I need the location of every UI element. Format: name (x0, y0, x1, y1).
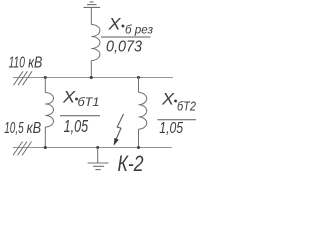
reactor coil Xб.рез (91, 25, 100, 61)
wire: reactor to 110kV bus (90, 61, 92, 78)
svg-text:110: 110 (9, 54, 26, 71)
node: 10.5kV/ground junction (96, 146, 99, 149)
transformer reactance coil XбТ2 (139, 92, 147, 129)
node: 110kV/T2 junction (137, 76, 140, 79)
label X*б рез / 0,073 (106, 16, 153, 56)
fraction bar (0,073) (101, 36, 151, 38)
wire: 10.5kV bus to bottom ground (97, 148, 99, 164)
wire: top ground stem to reactor Xб.рез (90, 7, 92, 24)
label 10,5 кВ (4, 120, 41, 137)
node: 10.5kV/T2 junction (137, 146, 140, 149)
wire: T1 coil to 10.5kV bus (44, 127, 46, 148)
node: 110kV/reactor junction (90, 76, 93, 79)
svg-text:X: X (107, 16, 121, 34)
label X*бТ2 / 1,05 (159, 91, 196, 138)
wire: T2 coil to 10.5kV bus (138, 129, 140, 147)
svg-text:1,05: 1,05 (64, 116, 89, 136)
fraction bar (1,05 right) (157, 119, 196, 121)
wire: 110kV bus down to transformer T1 coil (44, 78, 46, 93)
bus 110 kV (13, 77, 173, 79)
label 110 кВ (9, 54, 43, 71)
svg-text:0,073: 0,073 (106, 38, 142, 55)
ground (bottom) (88, 163, 109, 170)
wire: 110kV bus down to transformer T2 coil (138, 78, 140, 93)
ground (system earth, top) (84, 2, 101, 8)
svg-text:кВ: кВ (28, 54, 42, 71)
fraction bar (1,05 left) (60, 115, 100, 117)
transformer reactance coil XбТ1 (45, 93, 53, 128)
svg-text:К-2: К-2 (118, 151, 144, 176)
svg-text:10,5: 10,5 (4, 120, 24, 137)
node: 110kV/T1 junction (44, 76, 47, 79)
bus 10.5 kV (13, 147, 172, 149)
svg-text:1,05: 1,05 (159, 120, 183, 137)
label X*бТ1 / 1,05 (62, 89, 100, 136)
svg-text:б рез: б рез (125, 22, 153, 36)
system slashes (110 kV bus end) (14, 71, 33, 85)
svg-text:бТ1: бТ1 (78, 95, 100, 109)
svg-text:кВ: кВ (27, 120, 42, 137)
short-circuit arrow K-2 (114, 114, 124, 146)
system slashes (10.5 kV bus end) (13, 142, 32, 156)
svg-text:бТ2: бТ2 (177, 99, 196, 113)
node: 10.5kV/T1 junction (44, 146, 47, 149)
